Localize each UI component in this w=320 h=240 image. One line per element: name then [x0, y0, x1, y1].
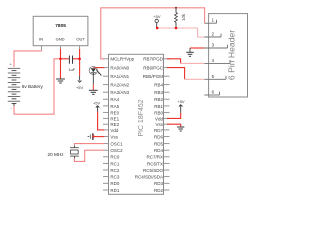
svg-text:OSC2: OSC2 — [110, 148, 123, 153]
svg-text:RE1: RE1 — [110, 116, 119, 121]
svg-text:RD4: RD4 — [154, 148, 163, 153]
svg-text:RB4: RB4 — [154, 83, 163, 88]
svg-text:6: 6 — [212, 90, 215, 95]
svg-text:IN: IN — [39, 37, 43, 42]
svg-text:RC3: RC3 — [110, 175, 119, 180]
svg-text:GND: GND — [56, 37, 65, 42]
svg-text:OUT: OUT — [76, 37, 85, 42]
svg-text:20 MHz: 20 MHz — [48, 152, 65, 157]
svg-text:RB3: RB3 — [154, 90, 163, 95]
svg-text:RB6/PGC: RB6/PGC — [143, 66, 164, 71]
svg-text:RE0: RE0 — [110, 110, 119, 115]
svg-text:RC0: RC0 — [110, 155, 119, 160]
svg-text:PIC 18F452: PIC 18F452 — [138, 99, 145, 136]
svg-text:RC1: RC1 — [110, 161, 119, 166]
svg-text:5: 5 — [212, 74, 215, 79]
svg-text:RB5/PGM: RB5/PGM — [143, 74, 164, 79]
svg-text:RD0: RD0 — [110, 181, 119, 186]
svg-text:MCLR*/Vpp: MCLR*/Vpp — [110, 57, 134, 62]
svg-text:RC2: RC2 — [110, 168, 119, 173]
svg-text:6 Pin Header: 6 Pin Header — [227, 30, 237, 80]
svg-text:RB1: RB1 — [154, 104, 163, 109]
svg-text:+: + — [9, 62, 12, 67]
svg-text:3: 3 — [212, 43, 215, 48]
svg-text:RB2: RB2 — [154, 97, 163, 102]
svg-text:+5V: +5V — [153, 14, 161, 19]
svg-text:RE2: RE2 — [110, 122, 119, 127]
svg-text:Vss: Vss — [155, 122, 163, 127]
svg-text:RB0: RB0 — [154, 110, 163, 115]
svg-text:2: 2 — [212, 32, 215, 37]
svg-text:RD1: RD1 — [110, 188, 119, 193]
svg-text:RC5/SDO: RC5/SDO — [143, 168, 164, 173]
svg-text:RC6/TX: RC6/TX — [147, 161, 163, 166]
svg-text:RA3/AN3: RA3/AN3 — [110, 90, 129, 95]
svg-text:RB7/PGD: RB7/PGD — [143, 57, 164, 62]
svg-text:Vdd: Vdd — [155, 116, 164, 121]
svg-text:+5V: +5V — [177, 99, 185, 104]
svg-text:Vdd: Vdd — [110, 128, 119, 133]
svg-text:RA5: RA5 — [110, 104, 119, 109]
svg-text:RD7: RD7 — [154, 128, 163, 133]
svg-text:+5V: +5V — [93, 100, 101, 105]
svg-text:OSC1: OSC1 — [110, 142, 123, 147]
svg-text:1uF: 1uF — [69, 68, 76, 72]
svg-text:Vss: Vss — [110, 135, 118, 140]
svg-text:1: 1 — [212, 18, 215, 23]
svg-text:RA1/AN1: RA1/AN1 — [110, 74, 129, 79]
svg-text:RD3: RD3 — [154, 181, 163, 186]
svg-text:RA0/AN0: RA0/AN0 — [110, 66, 129, 71]
svg-text:6v Battery: 6v Battery — [22, 84, 44, 89]
svg-text:RC7/RX: RC7/RX — [146, 155, 163, 160]
svg-text:RC4/SDI/SDA: RC4/SDI/SDA — [135, 175, 163, 180]
svg-text:RA2/AN2: RA2/AN2 — [110, 83, 129, 88]
svg-text:-: - — [10, 106, 12, 111]
svg-text:RA4: RA4 — [110, 97, 119, 102]
svg-text:+5V: +5V — [76, 85, 84, 90]
svg-text:RD5: RD5 — [154, 142, 163, 147]
svg-text:RD2: RD2 — [154, 188, 163, 193]
svg-text:4: 4 — [212, 58, 215, 63]
svg-text:7805: 7805 — [55, 23, 66, 29]
svg-text:RD6: RD6 — [154, 135, 163, 140]
svg-text:10k: 10k — [181, 13, 186, 21]
